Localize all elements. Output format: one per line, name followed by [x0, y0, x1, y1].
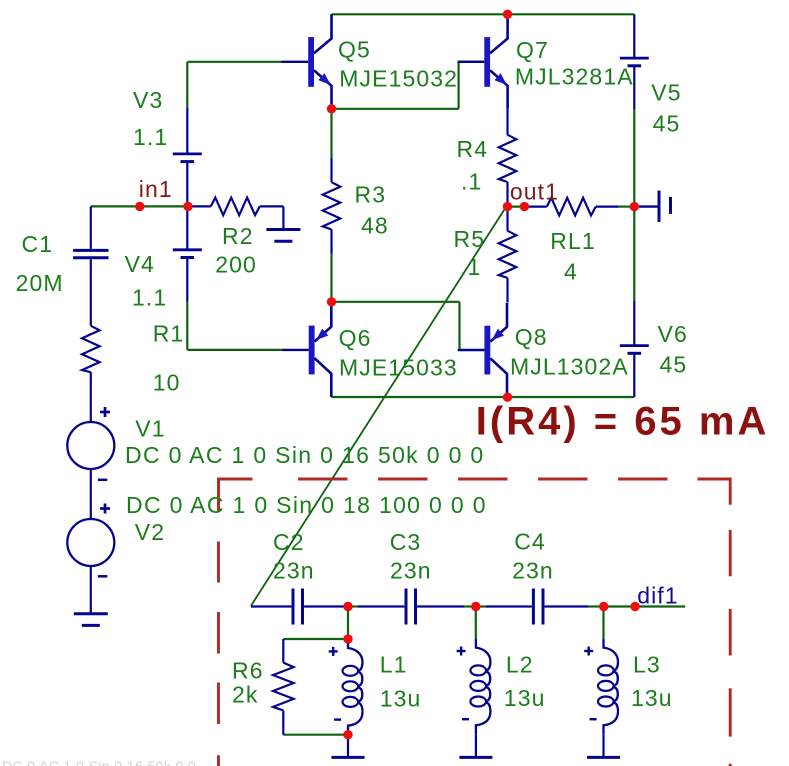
svg-text:48: 48	[361, 212, 389, 238]
svg-text:45: 45	[653, 111, 681, 137]
svg-text:200: 200	[215, 251, 257, 277]
svg-text:13u: 13u	[380, 686, 422, 712]
svg-text:DC 0 AC 1 0 Sin 0 16 50k 0 0: DC 0 AC 1 0 Sin 0 16 50k 0 0	[2, 758, 196, 766]
svg-text:R6: R6	[232, 658, 264, 684]
svg-text:10: 10	[153, 370, 181, 396]
svg-text:C1: C1	[22, 231, 54, 257]
svg-text:C4: C4	[514, 528, 546, 554]
svg-text:out1: out1	[510, 178, 559, 204]
svg-text:4: 4	[564, 259, 578, 285]
svg-text:1.1: 1.1	[133, 124, 168, 150]
svg-text:V3: V3	[133, 87, 163, 113]
svg-text:.1: .1	[460, 254, 481, 280]
svg-text:V6: V6	[658, 321, 688, 347]
svg-text:R3: R3	[355, 181, 387, 207]
svg-text:L3: L3	[633, 651, 661, 677]
svg-text:V4: V4	[125, 251, 155, 277]
svg-text:Q5: Q5	[338, 36, 371, 62]
svg-text:V2: V2	[135, 519, 165, 545]
svg-text:R1: R1	[153, 321, 185, 347]
svg-text:DC 0 AC 1 0 Sin 0 18 100 0 0 0: DC 0 AC 1 0 Sin 0 18 100 0 0 0	[126, 492, 487, 518]
svg-text:MJE15033: MJE15033	[339, 354, 458, 380]
svg-text:13u: 13u	[631, 685, 673, 711]
svg-text:1.1: 1.1	[132, 284, 167, 310]
svg-text:RL1: RL1	[550, 228, 596, 254]
svg-text:R5: R5	[454, 226, 486, 252]
svg-text:L2: L2	[506, 651, 534, 677]
svg-text:V5: V5	[651, 80, 681, 106]
svg-text:in1: in1	[139, 176, 173, 202]
svg-text:C2: C2	[273, 529, 305, 555]
svg-text:MJL3281A: MJL3281A	[515, 64, 634, 90]
svg-text:DC 0 AC 1 0 Sin 0 16 50k 0 0 0: DC 0 AC 1 0 Sin 0 16 50k 0 0 0	[125, 442, 485, 468]
svg-text:R2: R2	[222, 223, 254, 249]
svg-text:20M: 20M	[16, 270, 64, 296]
svg-text:23n: 23n	[512, 558, 554, 584]
svg-text:dif1: dif1	[637, 583, 678, 609]
svg-text:V1: V1	[135, 416, 165, 442]
svg-text:R4: R4	[457, 136, 489, 162]
svg-text:Q6: Q6	[339, 325, 372, 351]
svg-text:MJL1302A: MJL1302A	[510, 353, 629, 379]
svg-text:23n: 23n	[273, 558, 315, 584]
svg-text:MJE15032: MJE15032	[339, 66, 458, 92]
svg-text:Q8: Q8	[515, 324, 548, 350]
svg-text:13u: 13u	[504, 685, 546, 711]
svg-text:23n: 23n	[390, 558, 432, 584]
svg-text:45: 45	[660, 352, 688, 378]
svg-text:L1: L1	[380, 652, 408, 678]
svg-text:2k: 2k	[232, 682, 259, 708]
svg-text:Q7: Q7	[516, 37, 549, 63]
svg-text:I(R4) = 65 mA: I(R4) = 65 mA	[476, 400, 770, 444]
svg-text:.1: .1	[461, 168, 482, 194]
svg-text:C3: C3	[390, 529, 422, 555]
